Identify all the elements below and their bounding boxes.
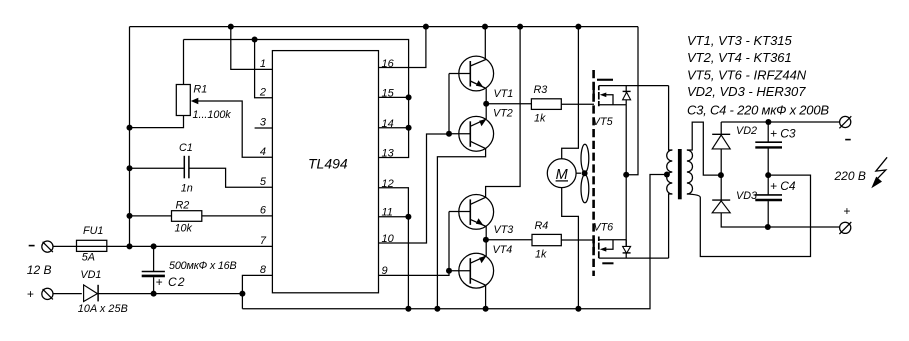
- svg-text:7: 7: [260, 235, 267, 247]
- label: 220V output: [834, 140, 866, 218]
- svg-text:2: 2: [259, 86, 266, 98]
- wire: negative rail drop to sources: [626, 27, 638, 175]
- svg-text:10: 10: [382, 233, 395, 245]
- wire: left rail vertical: [129, 27, 131, 247]
- labels: driver section: [493, 84, 614, 260]
- svg-text:11: 11: [382, 207, 393, 219]
- wire: output minus rail: [721, 119, 839, 125]
- svg-text:VT6: VT6: [593, 222, 613, 234]
- svg-text:R2: R2: [176, 199, 190, 211]
- svg-text:FU1: FU1: [83, 225, 103, 237]
- wire: VT5 source drop to VT6 source: [623, 105, 629, 247]
- svg-text:5A: 5A: [82, 252, 95, 264]
- svg-text:1...100k: 1...100k: [193, 109, 232, 121]
- svg-text:VT1: VT1: [494, 88, 514, 100]
- wire: pin 15 stub: [379, 96, 409, 98]
- wire: VT3/VT4 base tie: [446, 212, 452, 274]
- svg-text:R4: R4: [535, 220, 549, 232]
- pin numbers 9-16: [382, 58, 395, 277]
- terminal: plus input: [42, 288, 53, 299]
- wire: pin 8 drop to +12 rail: [239, 275, 272, 308]
- transformer T1 primary: [667, 86, 673, 259]
- capacitor C1: [130, 156, 273, 187]
- node: left rail dots: [127, 125, 133, 250]
- svg-text:6: 6: [260, 205, 267, 217]
- svg-text:1k: 1k: [535, 248, 547, 260]
- svg-text:VT5, VT6 - IRFZ44N: VT5, VT6 - IRFZ44N: [687, 67, 807, 82]
- transistor VT4: [449, 253, 494, 308]
- svg-text:+ C2: + C2: [156, 275, 185, 289]
- svg-text:VT4: VT4: [493, 244, 513, 256]
- labels: left input section: [78, 83, 237, 315]
- transformer core: [678, 149, 682, 199]
- node: top rail junction dots: [228, 24, 582, 30]
- transistor VT3: [449, 27, 520, 230]
- node: VT3/VT4 emitter junction: [483, 227, 489, 257]
- resistor R4: [486, 234, 594, 245]
- wire: top negative rail: [130, 26, 639, 28]
- wire: GND line to pin 7: [107, 245, 273, 247]
- transistor VT5 (IRFZ44N): [594, 79, 669, 107]
- terminal: minus input: [42, 241, 53, 252]
- lightning bolt: [871, 157, 887, 188]
- svg-text:VT2, VT4 - KT361: VT2, VT4 - KT361: [687, 50, 792, 65]
- node: feedback bus dots: [252, 37, 412, 131]
- transistor VT2: [437, 116, 493, 308]
- svg-text:VT5: VT5: [593, 116, 614, 128]
- label: 12V input: [27, 246, 52, 301]
- diode: VT6 body diode: [623, 240, 631, 258]
- node: primary centre tap: [664, 172, 670, 178]
- svg-text:VD2, VD3 - HER307: VD2, VD3 - HER307: [687, 84, 806, 99]
- wire: +12V bottom rail to transformer centre tap: [242, 175, 666, 312]
- wire: pin 10 to VT1/VT2 bases: [379, 134, 450, 243]
- svg-text:15: 15: [382, 87, 395, 99]
- terminal: output minus: [839, 116, 851, 128]
- svg-text:5: 5: [260, 176, 267, 188]
- wire: motor bottom to +12 rail: [562, 188, 579, 309]
- node: output rail dots: [765, 224, 771, 230]
- resistor R1 (potentiometer): [130, 40, 191, 128]
- dashed mechanical link to VT5/VT6: [592, 70, 595, 276]
- wire: pin 14 stub: [379, 127, 409, 129]
- svg-text:16: 16: [382, 58, 395, 70]
- svg-text:3: 3: [260, 117, 267, 129]
- resistor R3: [486, 99, 594, 110]
- capacitor C2: [142, 243, 165, 296]
- wire: pin 3 stub: [255, 127, 273, 129]
- wire: feedback bus from R1 top to pins 15/14/13: [184, 40, 409, 158]
- wire: pin 2 riser: [255, 40, 273, 98]
- svg-text:VD1: VD1: [80, 269, 101, 281]
- svg-text:+: +: [843, 204, 850, 218]
- svg-text:R3: R3: [534, 84, 548, 96]
- node: VT1/VT2 emitter junction: [483, 89, 489, 120]
- svg-text:10k: 10k: [175, 223, 193, 235]
- svg-text:220 В: 220 В: [834, 169, 866, 183]
- fuse FU1: [53, 240, 107, 251]
- svg-text:VD2: VD2: [736, 125, 757, 137]
- capacitor C3: [755, 122, 782, 175]
- svg-text:1k: 1k: [534, 112, 546, 124]
- svg-text:VT3: VT3: [494, 224, 514, 236]
- svg-text:13: 13: [382, 147, 395, 159]
- svg-text:500мкФ x 16В: 500мкФ x 16В: [169, 260, 237, 272]
- fan propeller: [576, 144, 589, 203]
- svg-text:8: 8: [260, 264, 267, 276]
- svg-text:10A x 25B: 10A x 25B: [78, 303, 128, 315]
- wire: VT1/VT2 base tie: [446, 74, 452, 137]
- label: parts list: [687, 33, 829, 118]
- svg-text:+ C3: + C3: [770, 126, 796, 140]
- wire: pin 16 to top rail: [379, 27, 426, 68]
- svg-text:14: 14: [382, 118, 394, 130]
- svg-text:C1: C1: [179, 142, 193, 154]
- diode VD1: [53, 285, 242, 302]
- svg-text:VT2: VT2: [493, 108, 513, 120]
- op-amp U1: TL494 IC body: [272, 51, 378, 293]
- wire: R1 wiper to pin 4: [191, 98, 273, 157]
- svg-text:TL494: TL494: [308, 156, 348, 172]
- node: C3/C4 junction: [765, 172, 771, 178]
- svg-text:9: 9: [382, 265, 388, 277]
- terminal: output plus: [839, 222, 851, 234]
- wire: pin 9 to VT3/VT4 bases: [379, 271, 450, 276]
- transistor VT1: [449, 27, 494, 91]
- resistor R2: [130, 211, 273, 222]
- transformer T1 secondary: [687, 122, 811, 256]
- svg-text:12: 12: [382, 178, 394, 190]
- pin numbers 1-8: [259, 58, 267, 276]
- svg-text:1n: 1n: [181, 183, 193, 195]
- svg-text:VT1, VT3 - KT315: VT1, VT3 - KT315: [687, 33, 793, 48]
- svg-text:R1: R1: [193, 83, 207, 95]
- svg-text:1: 1: [260, 58, 266, 70]
- transistor VT6 (IRFZ44N): [594, 237, 669, 265]
- svg-text:C3, C4 - 220 мкФ x 200В: C3, C4 - 220 мкФ x 200В: [687, 103, 829, 118]
- wire: pin 1 to top rail: [231, 27, 273, 70]
- svg-text:+: +: [27, 287, 34, 301]
- svg-text:+ C4: + C4: [770, 179, 796, 193]
- svg-text:12 В: 12 В: [27, 263, 52, 277]
- diode VD3: [712, 175, 839, 227]
- wire: pins 12/11 to +12 rail: [379, 188, 412, 309]
- node: VD2/VD3 junction: [718, 172, 724, 178]
- svg-text:4: 4: [260, 146, 266, 158]
- diode VD2: [712, 122, 730, 175]
- motor M1 (fan): [547, 159, 576, 188]
- diode: VT5 body diode: [623, 86, 631, 105]
- labels: rectifier section: [736, 125, 796, 202]
- wire: motor top feed from rail: [562, 27, 579, 159]
- svg-text:VD3: VD3: [736, 190, 757, 202]
- capacitor C4: [755, 175, 782, 227]
